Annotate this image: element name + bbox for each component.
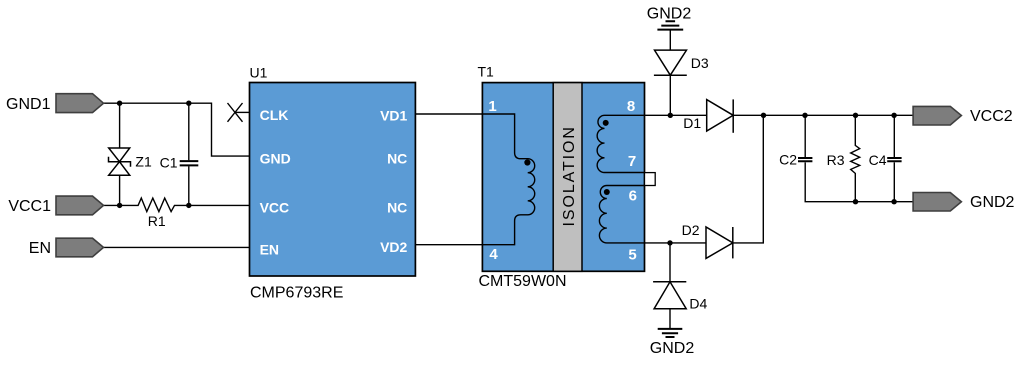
svg-text:VCC1: VCC1 xyxy=(8,198,51,215)
svg-text:R3: R3 xyxy=(827,152,845,168)
svg-text:R1: R1 xyxy=(148,213,166,229)
svg-text:D4: D4 xyxy=(689,295,707,311)
svg-text:EN: EN xyxy=(260,242,279,258)
svg-text:U1: U1 xyxy=(250,65,268,81)
svg-text:C1: C1 xyxy=(160,154,178,170)
svg-text:CMT59W0N: CMT59W0N xyxy=(479,273,567,290)
svg-text:7: 7 xyxy=(628,153,636,170)
svg-text:NC: NC xyxy=(387,200,407,216)
svg-text:C2: C2 xyxy=(779,152,797,168)
svg-text:5: 5 xyxy=(628,246,636,263)
svg-text:VCC: VCC xyxy=(260,200,290,216)
svg-text:C4: C4 xyxy=(869,152,887,168)
svg-text:T1: T1 xyxy=(478,64,495,80)
svg-text:D2: D2 xyxy=(682,222,700,238)
svg-text:6: 6 xyxy=(629,188,637,205)
svg-text:GND1: GND1 xyxy=(6,96,51,113)
svg-text:ISOLATION: ISOLATION xyxy=(561,125,578,226)
svg-text:8: 8 xyxy=(627,98,635,115)
svg-text:GND: GND xyxy=(260,151,291,167)
svg-text:VD1: VD1 xyxy=(380,108,407,124)
svg-text:Z1: Z1 xyxy=(135,154,152,170)
svg-text:GND2: GND2 xyxy=(650,340,695,357)
svg-text:VD2: VD2 xyxy=(380,239,407,255)
svg-text:NC: NC xyxy=(387,151,407,167)
svg-text:D1: D1 xyxy=(683,115,701,131)
svg-text:D3: D3 xyxy=(691,55,709,71)
svg-text:GND2: GND2 xyxy=(970,194,1015,211)
svg-text:4: 4 xyxy=(489,246,498,263)
svg-text:EN: EN xyxy=(29,240,51,257)
svg-text:1: 1 xyxy=(488,98,496,115)
svg-text:VCC2: VCC2 xyxy=(970,108,1013,125)
svg-text:GND2: GND2 xyxy=(647,5,692,22)
svg-text:CMP6793RE: CMP6793RE xyxy=(250,284,343,301)
svg-text:CLK: CLK xyxy=(260,107,289,123)
